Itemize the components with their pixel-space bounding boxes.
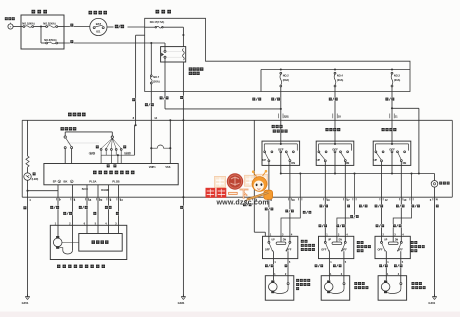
svg-text:2[8]: 2[8] (284, 114, 289, 118)
svg-text:(LED): (LED) (32, 178, 39, 181)
svg-text:G451: G451 (22, 301, 29, 305)
svg-text:UP: UP (272, 239, 276, 241)
svg-text:NO.2(50A): NO.2(50A) (43, 22, 55, 26)
svg-text:PLSA: PLSA (89, 179, 96, 183)
svg-text:VSS: VSS (165, 166, 170, 169)
svg-text:14: 14 (154, 116, 157, 120)
svg-text:OFF: OFF (321, 247, 327, 251)
svg-text:DN: DN (291, 161, 295, 165)
svg-text:10: 10 (403, 198, 406, 202)
svg-text:DN: DN (339, 239, 343, 241)
svg-text:PLSB: PLSB (112, 179, 119, 183)
svg-text:www.dzsc.com: www.dzsc.com (216, 199, 269, 207)
svg-text:(自动): (自动) (89, 151, 96, 155)
svg-text:(20A): (20A) (283, 78, 290, 82)
svg-text:IG1: IG1 (96, 30, 101, 34)
svg-text:NO.7: NO.7 (153, 75, 160, 79)
svg-text:UP: UP (374, 158, 378, 162)
svg-text:19: 19 (327, 198, 330, 202)
svg-text:DN: DN (403, 161, 407, 165)
svg-text:BAT: BAT (96, 22, 102, 26)
svg-text:OFF: OFF (342, 247, 348, 251)
svg-text:NO.17(7.5A): NO.17(7.5A) (150, 20, 165, 24)
svg-text:UP: UP (262, 158, 266, 162)
svg-text:NO.1(80A): NO.1(80A) (22, 22, 34, 26)
svg-text:OFF: OFF (398, 247, 404, 251)
svg-text:VMP1: VMP1 (149, 166, 156, 169)
svg-text:G481: G481 (178, 301, 185, 305)
svg-text:(20A): (20A) (394, 78, 401, 82)
svg-text:UP: UP (317, 158, 321, 162)
svg-text:OFF: OFF (378, 247, 384, 251)
svg-text:(20A): (20A) (153, 80, 160, 84)
svg-text:EP: EP (53, 179, 57, 183)
svg-text:16: 16 (88, 198, 91, 202)
svg-text:17: 17 (347, 198, 350, 202)
svg-text:DN: DN (346, 161, 350, 165)
svg-text:(20A): (20A) (337, 78, 344, 82)
svg-text:DN: DN (283, 239, 287, 241)
svg-text:11: 11 (395, 114, 398, 118)
svg-text:OFF: OFF (265, 247, 271, 251)
svg-text:NO.6(50A): NO.6(50A) (44, 38, 56, 42)
svg-text:G401: G401 (428, 301, 435, 305)
svg-text:UP: UP (328, 239, 332, 241)
svg-text:NO.4: NO.4 (337, 73, 344, 77)
svg-text:13: 13 (120, 198, 123, 202)
svg-text:18: 18 (338, 114, 341, 118)
svg-text:(自动): (自动) (124, 151, 131, 155)
svg-text:BK: BK (64, 179, 68, 183)
svg-text:OFF: OFF (286, 247, 292, 251)
svg-text:UP: UP (384, 239, 388, 241)
svg-text:DN: DN (395, 239, 399, 241)
svg-text:12: 12 (385, 198, 388, 202)
svg-text:NO.2: NO.2 (283, 73, 290, 77)
svg-text:20: 20 (99, 198, 102, 202)
svg-text:NO.3: NO.3 (394, 73, 401, 77)
svg-text:19: 19 (292, 198, 295, 202)
